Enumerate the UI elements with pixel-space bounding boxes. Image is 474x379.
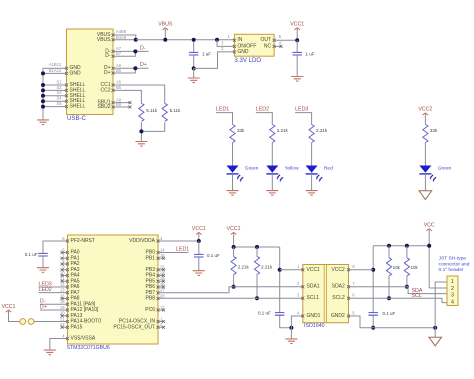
wire D- lower: [113, 51, 135, 56]
svg-text:SHELL: SHELL: [70, 104, 86, 110]
ground GND (C3): [37, 268, 49, 273]
svg-text:VSS/VSSA: VSS/VSSA: [71, 336, 96, 342]
wire stub (n.c.): [62, 280, 68, 282]
wire LED cathode to ground (LED3): [311, 174, 313, 190]
wire to ISO pin VCC1: [280, 269, 303, 271]
svg-text:33k: 33k: [237, 128, 245, 133]
wire C5 bottom: [280, 315, 292, 328]
wire resistor to LED (LED3): [311, 143, 313, 166]
ground GND (C1): [188, 78, 200, 83]
resistor R6 10k (SDA2 pullup): [404, 258, 409, 276]
svg-text:D+: D+: [140, 62, 147, 68]
svg-text:Green: Green: [245, 166, 259, 172]
wire LDO GND to C1 bottom: [194, 52, 235, 69]
ground GND (LED1): [227, 191, 239, 196]
wire stub (n.c.): [62, 326, 68, 328]
wire R5 bottom to SCL2: [388, 276, 390, 298]
svg-text:SBU2: SBU2: [97, 104, 110, 110]
wire stub (n.c.): [158, 286, 164, 288]
wire net SCL1 (PB8 to ISO): [158, 297, 303, 299]
svg-text:0.1 uF: 0.1 uF: [383, 311, 396, 316]
wire R5 top: [388, 246, 390, 258]
wire C1 top: [193, 40, 195, 52]
svg-text:GND1: GND1: [307, 313, 321, 319]
svg-text:S1: S1: [56, 79, 62, 84]
wire PB0 LED1: [158, 252, 189, 254]
ground GND (ISO side1): [285, 339, 297, 344]
junction R4/SCL1: [255, 296, 259, 300]
wire LDO OUT to VCC1: [274, 39, 297, 41]
junction ISO VCC2: [371, 268, 375, 272]
junction ISO VCC1: [278, 268, 282, 272]
svg-text:PA15: PA15: [71, 324, 83, 330]
wire VBUS flag stub: [164, 29, 166, 40]
wire NC stub: [274, 45, 281, 47]
wire rail to ISO VCC2 / C6: [372, 246, 374, 313]
svg-text:GND2: GND2: [331, 313, 345, 319]
wire VCC2 flag to resistor: [424, 114, 426, 125]
capacitor C1 1uF: [189, 52, 199, 55]
svg-text:13: 13: [60, 288, 65, 293]
svg-text:PB1: PB1: [146, 255, 156, 261]
ground GND (LED3): [306, 191, 318, 196]
svg-text:A1B12: A1B12: [49, 62, 62, 67]
isolator U4 ISO1640 body: [303, 265, 349, 323]
wire stub (n.c.): [158, 326, 164, 328]
svg-text:0.1 uF: 0.1 uF: [25, 252, 38, 257]
wire SHELL S1: [43, 84, 67, 86]
svg-text:VBUS: VBUS: [158, 22, 173, 28]
jumper pad 1: [20, 319, 26, 325]
junction VDD/C4: [197, 239, 201, 243]
svg-text:14: 14: [160, 247, 165, 252]
wire VCC1 flag to rail: [233, 233, 235, 247]
wire R2 bottom join: [141, 122, 164, 131]
svg-text:SCL: SCL: [412, 293, 422, 299]
junction rail R6: [405, 244, 409, 248]
svg-text:S2: S2: [56, 85, 62, 90]
svg-text:D+: D+: [40, 304, 47, 310]
wire D- upper / net stub: [113, 50, 149, 52]
capacitor C5 0.1uF (ISO side1): [275, 313, 285, 316]
resistor R4 2.21k (SCL1 pullup): [254, 256, 259, 274]
svg-text:VCC: VCC: [424, 223, 435, 229]
svg-text:D-: D-: [105, 53, 111, 59]
wire stub (n.c.): [158, 269, 164, 271]
junction GND2/JST pin1: [433, 326, 437, 330]
svg-text:VCC1: VCC1: [307, 267, 321, 273]
wire C3 bottom: [42, 256, 44, 267]
wire stub (n.c.): [62, 269, 68, 271]
wire JST pin1 to GND2: [435, 282, 447, 328]
svg-text:Yellow: Yellow: [285, 166, 299, 172]
wire C1 bottom: [193, 55, 195, 68]
ground GND (LED2): [266, 191, 278, 196]
svg-text:VCC1: VCC1: [227, 226, 241, 232]
junction C1 tap: [192, 38, 196, 42]
wire net SCL2 to JST pin4: [349, 298, 448, 302]
svg-text:1 uF: 1 uF: [202, 51, 211, 56]
svg-text:4: 4: [451, 300, 454, 306]
svg-text:SDA2: SDA2: [332, 284, 345, 290]
svg-text:2.21k: 2.21k: [316, 128, 328, 133]
svg-text:10k: 10k: [393, 265, 401, 270]
wire SHELL S3: [43, 95, 67, 97]
junction D-: [133, 49, 137, 53]
wire stub (n.c.): [62, 315, 68, 317]
wire VCC to JST pin2: [429, 287, 447, 289]
junction R3/SDA1: [232, 285, 236, 289]
svg-text:PC6: PC6: [145, 307, 155, 313]
wire VSS/VSSA to ground: [50, 339, 68, 350]
ground GND (VSS): [44, 350, 56, 355]
wire ISO GND1 to ground: [291, 316, 302, 339]
svg-text:D+: D+: [104, 70, 111, 76]
resistor 2.21k (LED2 column): [270, 125, 275, 143]
wire stub (n.c.): [158, 309, 164, 311]
junction GND1: [289, 326, 293, 330]
wire CC2 to R1: [113, 90, 141, 103]
svg-text:VCC1: VCC1: [290, 22, 304, 28]
wire stub (n.c.): [62, 257, 68, 259]
svg-text:GND: GND: [70, 70, 82, 76]
wire LED cathode to ground (LED2): [271, 174, 273, 190]
wire VBUS pin B4A9: [113, 39, 136, 41]
wire PA11 D-: [40, 303, 68, 305]
wire stub (n.c.): [158, 280, 164, 282]
junction R5/SCL2: [387, 296, 391, 300]
svg-text:S3: S3: [56, 90, 62, 95]
svg-text:0.1" header: 0.1" header: [439, 267, 464, 273]
wire PF2-NRST to C3: [43, 241, 68, 253]
junction C6/GND2 rail: [371, 326, 375, 330]
capacitor C4 0.1uF (VDD): [194, 254, 204, 257]
ground GND (USB-C shell): [37, 120, 49, 125]
wire C4 top: [198, 241, 200, 254]
svg-text:D-: D-: [140, 45, 146, 51]
wire C4 bottom: [198, 257, 200, 270]
wire LED2 label to resistor: [256, 113, 272, 125]
wire C2 bottom to ground: [296, 55, 298, 76]
svg-text:OUT: OUT: [261, 37, 272, 43]
wire stub (n.c.): [62, 252, 68, 254]
wire VCC rail: [373, 245, 429, 247]
svg-text:LED2: LED2: [39, 287, 52, 293]
junction VCC1/C2: [295, 38, 299, 42]
wire stub (n.c.): [158, 275, 164, 277]
svg-text:NC: NC: [264, 43, 272, 49]
resistor 2.21k (LED3 column): [309, 125, 314, 143]
wire net SDA2 to JST pin3: [349, 287, 448, 294]
wire LED3 label to resistor: [295, 113, 312, 125]
svg-text:B4A9: B4A9: [116, 35, 127, 40]
capacitor C3 0.1uF (NRST): [38, 253, 48, 256]
wire R3 top: [233, 247, 235, 256]
wire PA12 D+: [40, 309, 68, 311]
junction rail R5: [387, 244, 391, 248]
junction VBUS: [134, 38, 138, 42]
svg-text:VBUS: VBUS: [97, 37, 111, 43]
svg-text:10k: 10k: [411, 265, 419, 270]
svg-text:LED3: LED3: [295, 107, 308, 113]
svg-text:33k: 33k: [430, 128, 438, 133]
regulator U2 3.3V LDO body: [234, 34, 274, 56]
svg-text:connector and: connector and: [439, 261, 470, 267]
svg-text:19: 19: [60, 305, 65, 310]
wire R4 bottom to SCL1: [256, 274, 258, 298]
wire R6 bottom to SDA2: [406, 276, 408, 287]
junction R6/SDA2: [405, 285, 409, 289]
svg-text:S5: S5: [56, 101, 62, 106]
junction rail R4: [255, 245, 259, 249]
wire to ground: [193, 68, 195, 77]
wire LED cathode to GND2: [424, 174, 426, 191]
svg-text:3.3V LDO: 3.3V LDO: [234, 57, 261, 64]
svg-text:SDA1: SDA1: [307, 284, 320, 290]
wire R4 top: [256, 247, 258, 256]
junction IN/ONOFF tie: [215, 38, 219, 42]
capacitor C2 1uF: [292, 52, 302, 55]
junction VCC flag/rail: [427, 244, 431, 248]
svg-text:SCL1: SCL1: [307, 295, 320, 301]
svg-text:S4: S4: [56, 96, 62, 101]
svg-text:VCC1: VCC1: [2, 304, 16, 310]
svg-text:GND: GND: [237, 49, 249, 55]
svg-text:VCC2: VCC2: [331, 267, 345, 273]
junction VBUS flag: [163, 38, 167, 42]
wire VBUS pin A4B9: [113, 35, 136, 40]
wire SBU1 stub (n.c.): [113, 102, 130, 104]
svg-text:5.11k: 5.11k: [170, 108, 181, 113]
svg-text:USB-C: USB-C: [67, 115, 87, 122]
LED VCC2 Green: [419, 166, 431, 173]
capacitor C6 0.1uF (ISO side2): [368, 313, 378, 316]
svg-text:A4B9: A4B9: [116, 29, 127, 34]
ground GND (CC resistors): [135, 142, 147, 147]
svg-text:PB8: PB8: [146, 296, 156, 302]
wire net VBUS to LDO IN: [136, 39, 235, 41]
svg-text:VDD/VDDA: VDD/VDDA: [129, 238, 156, 244]
wire jumper pad 2 to PA14-BOOT0: [34, 321, 68, 323]
svg-text:ISO1640: ISO1640: [304, 323, 325, 329]
wire USB-C GND bus: [43, 68, 67, 119]
svg-text:VCC1: VCC1: [192, 226, 206, 232]
wire SBU2 stub (n.c.): [113, 106, 130, 108]
svg-text:1 uF: 1 uF: [306, 51, 315, 56]
resistor R5 10k (SCL2 pullup): [386, 258, 391, 276]
svg-text:A5: A5: [116, 80, 122, 85]
resistor R1 5.11k (CC2): [139, 103, 144, 121]
svg-text:PC15-OSCX_OUT: PC15-OSCX_OUT: [113, 324, 155, 330]
isolation barrier: [324, 265, 326, 323]
svg-text:1: 1: [451, 279, 454, 285]
wire ISO pin VCC2: [349, 269, 374, 271]
wire net SDA1 (PB7 to ISO): [158, 287, 303, 293]
wire R3 bottom to SDA1: [233, 274, 235, 286]
wire GND pin B1A12: [43, 72, 67, 74]
svg-text:5.11k: 5.11k: [146, 108, 157, 113]
wire LED cathode to ground (LED1): [232, 174, 234, 190]
connector J2 JST SH body: [447, 276, 458, 306]
wire VCC1 flag stub: [198, 233, 200, 241]
wire PA7 LED2: [39, 292, 68, 294]
wire SHELL S4: [43, 100, 67, 102]
ground GND2 (isolated, hollow triangle): [419, 191, 432, 200]
wire C2 top: [296, 40, 298, 52]
wire rail to ISO VCC1 / C5: [279, 247, 281, 312]
resistor 33k (LED1 column): [230, 125, 235, 143]
wire VCC1 to jumper pad 1: [9, 311, 20, 321]
wire D+ lower: [113, 68, 135, 73]
junction CC resistors: [139, 129, 143, 133]
junction D+: [133, 66, 137, 70]
wire LED1 label to resistor: [216, 113, 233, 125]
wire VCC flag down to JST pin2: [428, 230, 430, 288]
LED LED1 Green: [227, 166, 239, 173]
LED LED3 Red: [306, 166, 318, 173]
wire ISO GND2 to GND2 rail: [349, 316, 436, 328]
wire resistor to LED (LED1): [232, 143, 234, 166]
svg-text:28: 28: [160, 293, 165, 298]
jumper pad 2: [28, 319, 34, 325]
wire stub (n.c.): [158, 321, 164, 323]
svg-text:3: 3: [451, 293, 454, 299]
svg-text:CC2: CC2: [100, 87, 110, 93]
svg-text:LED1: LED1: [216, 107, 229, 113]
wire resistor to LED (VCC2): [424, 143, 426, 166]
svg-text:2.21k: 2.21k: [238, 265, 250, 270]
svg-text:0.1 uF: 0.1 uF: [258, 310, 271, 315]
junction rail R3: [232, 245, 236, 249]
wire D+ upper / net stub: [113, 67, 149, 69]
svg-text:JST SH-type: JST SH-type: [439, 256, 467, 262]
wire VDD/VDDA to VCC1: [158, 240, 199, 242]
svg-text:LED1: LED1: [176, 246, 189, 252]
svg-text:PF2-NRST: PF2-NRST: [71, 238, 95, 244]
svg-text:B5: B5: [116, 85, 122, 90]
svg-text:0.1 uF: 0.1 uF: [207, 253, 220, 258]
ground GND (C4): [193, 271, 205, 276]
svg-text:STM32C071GBU6: STM32C071GBU6: [67, 345, 110, 351]
resistor R3 2.21k (SDA1 pullup): [231, 256, 236, 274]
svg-text:Red: Red: [324, 166, 333, 172]
wire SHELL S5: [43, 106, 67, 108]
svg-text:LED2: LED2: [256, 107, 269, 113]
wire R1 bottom to ground: [140, 122, 142, 141]
wire stub (n.c.): [62, 275, 68, 277]
wire VCC1 flag stub: [296, 29, 298, 40]
svg-text:Green: Green: [438, 166, 452, 172]
wire C6 bottom: [372, 315, 374, 328]
wire resistor to LED (LED2): [271, 143, 273, 166]
wire SHELL S2: [43, 89, 67, 91]
LED LED2 Yellow: [266, 166, 278, 173]
wire ON/OFF tie: [217, 40, 234, 47]
svg-text:2.21k: 2.21k: [277, 128, 289, 133]
svg-text:2.21k: 2.21k: [261, 265, 273, 270]
ground GND2 (isolated, hollow triangle): [429, 337, 442, 346]
resistor 33k (VCC2 column): [423, 125, 428, 143]
wire stub (n.c.): [62, 298, 68, 300]
svg-text:VCC2: VCC2: [418, 107, 432, 113]
svg-text:SCL2: SCL2: [332, 295, 345, 301]
resistor R2 5.11k (CC1): [162, 103, 167, 121]
wire VCC1 pullup rail: [234, 246, 280, 248]
svg-text:IN: IN: [237, 37, 242, 43]
ground GND (C2): [291, 77, 303, 82]
svg-text:2: 2: [451, 286, 454, 292]
wire CC1 to R2: [113, 85, 165, 103]
wire R6 top: [406, 246, 408, 258]
microcontroller U3 STM32C071GBU6 body: [68, 235, 159, 344]
wire stub (n.c.): [158, 257, 164, 259]
wire to GND2 symbol: [434, 328, 436, 337]
junction C1/LDO GND: [192, 66, 196, 70]
connector J1 USB-C body: [67, 29, 114, 115]
wire PA6 LED3: [39, 286, 68, 288]
wire stub (n.c.): [62, 263, 68, 265]
